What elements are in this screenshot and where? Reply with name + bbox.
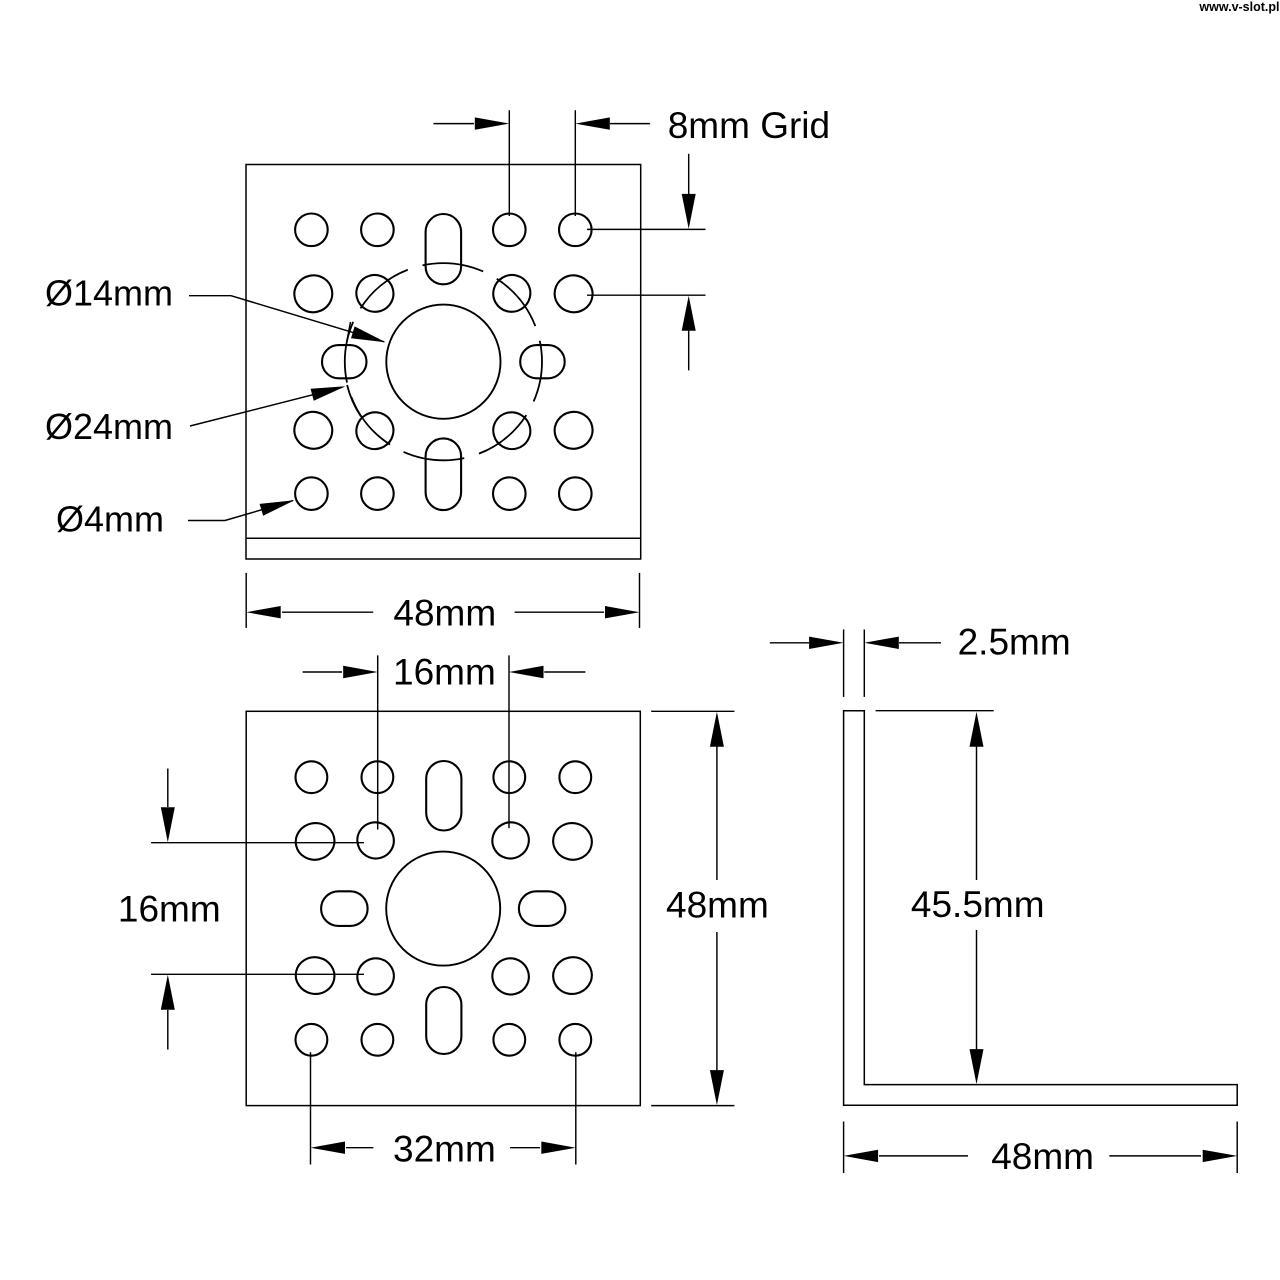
svg-text:www.v-slot.pl: www.v-slot.pl: [1198, 0, 1279, 14]
svg-text:48mm: 48mm: [991, 1136, 1094, 1177]
svg-text:2.5mm: 2.5mm: [958, 622, 1071, 663]
svg-text:48mm: 48mm: [666, 885, 769, 926]
svg-text:Ø4mm: Ø4mm: [56, 499, 164, 540]
svg-text:8mm Grid: 8mm Grid: [668, 105, 830, 146]
svg-text:Ø14mm: Ø14mm: [45, 273, 173, 314]
svg-text:32mm: 32mm: [393, 1129, 496, 1170]
svg-text:16mm: 16mm: [393, 651, 496, 692]
svg-text:16mm: 16mm: [118, 889, 221, 930]
svg-text:45.5mm: 45.5mm: [911, 884, 1045, 925]
svg-text:Ø24mm: Ø24mm: [45, 406, 173, 447]
svg-text:48mm: 48mm: [393, 592, 496, 633]
